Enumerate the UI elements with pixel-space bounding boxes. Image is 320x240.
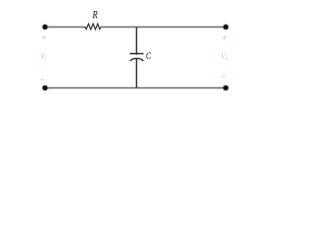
minus sign right (Vo) bbox=[222, 75, 226, 77]
capacitor C1 bottom curved plate bbox=[130, 58, 143, 61]
wire top-left segment bbox=[45, 26, 86, 29]
plus sign right (Vo) bbox=[222, 35, 226, 39]
node dot top-left bbox=[42, 24, 49, 31]
plus sign left (Vi) bbox=[42, 35, 46, 39]
node label Vo bbox=[221, 53, 227, 60]
label C bbox=[146, 53, 151, 59]
node dot bottom-left bbox=[42, 85, 49, 92]
wire capacitor branch upper bbox=[135, 27, 138, 55]
node dot bottom-right bbox=[222, 85, 229, 92]
wire top-right segment bbox=[101, 26, 227, 29]
node dot top-right bbox=[222, 24, 229, 31]
wire bottom bbox=[45, 87, 226, 90]
label R bbox=[92, 11, 97, 18]
minus sign left (Vi) bbox=[40, 78, 44, 80]
wire capacitor branch lower bbox=[135, 59, 138, 88]
resistor R1 bbox=[85, 24, 101, 30]
node label Vi bbox=[41, 54, 46, 61]
capacitor C1 top plate bbox=[130, 52, 144, 55]
